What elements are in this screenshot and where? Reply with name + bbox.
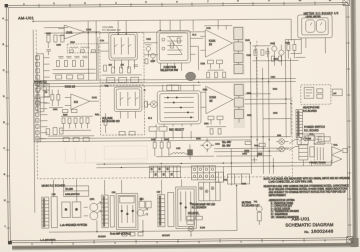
notes parts list bbox=[269, 199, 300, 219]
svg-text:T901: T901 bbox=[333, 145, 337, 147]
meter feed resistor network bbox=[287, 39, 296, 58]
connector CN102 phono strip bbox=[34, 99, 48, 142]
svg-text:IC102: IC102 bbox=[92, 97, 97, 99]
svg-text:L-ch (2SC2837): L-ch (2SC2837) bbox=[40, 240, 56, 242]
motor M101 bbox=[186, 72, 196, 80]
page bottom edge shadow bbox=[12, 243, 356, 251]
svg-text:E-233: E-233 bbox=[200, 227, 205, 229]
svg-text:C301: C301 bbox=[53, 109, 58, 111]
svg-text:S2-1: S2-1 bbox=[148, 118, 152, 120]
svg-text:TH1: TH1 bbox=[254, 201, 258, 203]
svg-text:D902: D902 bbox=[242, 153, 247, 155]
speaker A block : connector CN301 bbox=[42, 197, 49, 228]
vertical wires right x285-290 bbox=[285, 40, 291, 138]
volume pot VR101 assembly bbox=[109, 32, 138, 69]
svg-text:Q201: Q201 bbox=[273, 59, 278, 61]
svg-text:C121: C121 bbox=[146, 39, 151, 41]
selector motor M102 bbox=[144, 101, 157, 108]
svg-text:R-ch AMP MODULE: R-ch AMP MODULE bbox=[110, 232, 131, 235]
ground lug bbox=[188, 226, 194, 236]
svg-text:IC102 1/2: IC102 1/2 bbox=[65, 85, 76, 88]
headphone board dashed outline bbox=[301, 85, 331, 105]
top horizontal bus wire bbox=[44, 26, 205, 33]
top supply rail wire bbox=[33, 19, 292, 81]
svg-text:PHONO/AMP SW LED: PHONO/AMP SW LED bbox=[192, 203, 216, 206]
headphone jack J901 bbox=[304, 87, 323, 98]
meter M901 assembly bbox=[298, 15, 333, 54]
svg-text:L901: L901 bbox=[176, 148, 180, 150]
svg-text:D901: D901 bbox=[196, 138, 201, 140]
svg-text:No. 16002446: No. 16002446 bbox=[304, 228, 333, 234]
supply labels row bbox=[222, 141, 265, 147]
svg-text:P.C.BOARD 1/2: P.C.BOARD 1/2 bbox=[102, 28, 121, 32]
svg-text:S1-2: S1-2 bbox=[192, 34, 196, 36]
tone network coils L101 bbox=[67, 44, 98, 53]
svg-text:P.C. BOARDS: P.C. BOARDS bbox=[192, 206, 207, 209]
svg-text:FUSE: FUSE bbox=[305, 138, 311, 140]
svg-text:IC102: IC102 bbox=[209, 96, 216, 99]
lower horizontal bus wires y140 bbox=[37, 137, 291, 142]
svg-text:C204: C204 bbox=[271, 77, 276, 79]
bridge rectifier D901 bbox=[200, 138, 214, 152]
input selector switch S101 assembly bbox=[157, 30, 191, 71]
connector CN901 right strip bbox=[296, 109, 303, 137]
svg-text:AM-U01: AM-U01 bbox=[18, 15, 34, 20]
phono lower component row bbox=[46, 127, 94, 141]
IC102 column parts bbox=[234, 84, 243, 122]
bus wires y165 bbox=[96, 162, 331, 168]
IC101 column parts bbox=[234, 27, 243, 73]
svg-text:2SC2837: 2SC2837 bbox=[162, 235, 170, 237]
buffer transistors Q103 Q104 bbox=[145, 45, 155, 64]
frame corner mark bottom-right bbox=[347, 237, 353, 243]
balance board passives bbox=[104, 113, 135, 135]
speaker C block : connector CN303 bbox=[158, 195, 165, 227]
svg-text:Q : TRANSISTOR 2SC1815: Q : TRANSISTOR 2SC1815 bbox=[271, 210, 300, 213]
wire meter to amp bbox=[285, 39, 305, 57]
svg-text:C332: C332 bbox=[247, 115, 252, 117]
svg-text:CN5: CN5 bbox=[52, 194, 56, 196]
svg-text:C : CAPACITOR (uF): C : CAPACITOR (uF) bbox=[271, 205, 292, 208]
svg-text:J: J bbox=[4, 226, 5, 228]
svg-text:LEVEL METER: LEVEL METER bbox=[306, 16, 321, 18]
svg-text:R402: R402 bbox=[164, 139, 169, 141]
op-amp IC102a phono bbox=[65, 85, 99, 109]
svg-text:R131: R131 bbox=[201, 63, 206, 65]
phono input transistor pair Q101 Q102 bbox=[34, 82, 50, 97]
svg-text:RY1: RY1 bbox=[224, 180, 228, 182]
faint ghost lines bbox=[65, 147, 147, 163]
svg-text:P.C.BOARD: P.C.BOARD bbox=[303, 109, 317, 113]
IC101 feedback parts bbox=[204, 26, 232, 78]
svg-text:L-ch SPEAKER SYSTEM: L-ch SPEAKER SYSTEM bbox=[60, 224, 87, 227]
meter driver transistors Q201 Q202 bbox=[271, 42, 284, 66]
regulator diodes row bbox=[244, 150, 262, 163]
micro reference labels bbox=[44, 27, 338, 239]
svg-text:C131: C131 bbox=[206, 28, 211, 30]
svg-text:C342: C342 bbox=[273, 113, 278, 115]
speaker A block : label box TA-160 bbox=[64, 186, 89, 197]
IC102 shaded column bbox=[233, 83, 245, 128]
speaker A block : driver box bbox=[51, 197, 57, 228]
speaker A block : output squares Q301 Q302 bbox=[62, 202, 81, 218]
svg-text:Q1: Q1 bbox=[45, 92, 48, 94]
svg-text:DARLINGTON: DARLINGTON bbox=[65, 193, 80, 196]
bottom interconnect wires bbox=[48, 148, 237, 237]
frame tick marks left bbox=[5, 20, 10, 228]
svg-text:R401: R401 bbox=[151, 139, 156, 141]
power indicator lamps PL901 bbox=[276, 139, 288, 152]
svg-text:IC101: IC101 bbox=[66, 32, 73, 34]
speaker C block : heatsink module box bbox=[168, 187, 197, 229]
supply rail resistor row mid bbox=[153, 138, 170, 157]
power switch S901 bbox=[297, 134, 324, 145]
terminal strip TB2 bbox=[191, 166, 215, 180]
svg-text:SW1: SW1 bbox=[277, 135, 281, 137]
filter choke L901 bbox=[169, 152, 189, 154]
thermal breaker TH901 bbox=[256, 204, 262, 225]
wires volume to selector bbox=[98, 37, 158, 80]
svg-text:CN6: CN6 bbox=[112, 192, 116, 194]
op-amp IC101 bbox=[200, 29, 242, 57]
speaker B block : heatsink module box bbox=[116, 193, 138, 229]
svg-text:2.2u: 2.2u bbox=[100, 40, 104, 42]
svg-text:P.C.BOARD 1/2: P.C.BOARD 1/2 bbox=[242, 204, 260, 207]
svg-text:CN-244A: CN-244A bbox=[188, 211, 199, 215]
selector2 top part bbox=[167, 85, 179, 91]
faint ghost box bbox=[104, 146, 147, 159]
svg-text:CN7: CN7 bbox=[157, 192, 161, 194]
notes paragraph 2 bbox=[264, 185, 350, 198]
selector 2 bottom labels bbox=[149, 124, 191, 139]
svg-text:R331: R331 bbox=[247, 93, 252, 95]
svg-text:P.C. BOARD: P.C. BOARD bbox=[304, 128, 319, 132]
resistor R102 bbox=[54, 35, 57, 42]
IC102 feedback parts bbox=[206, 116, 226, 134]
svg-text:C105: C105 bbox=[56, 45, 61, 47]
frame corner mark top-right bbox=[343, 0, 350, 6]
relay module box E bbox=[227, 174, 249, 184]
svg-text:LOAD CONNECTED, AC 120V 60Hz L: LOAD CONNECTED, AC 120V 60Hz LINE. bbox=[269, 180, 314, 183]
op-amp IC1a tone amp bbox=[58, 25, 100, 39]
notes paragraph 1 bbox=[264, 177, 351, 184]
supply wires right bbox=[156, 148, 291, 157]
part number label bbox=[188, 211, 200, 215]
page right edge shadow bbox=[350, 0, 358, 243]
driver module box D bbox=[215, 172, 223, 182]
ac outlet box bbox=[332, 89, 342, 96]
svg-text:P.C.BOARD 2/2: P.C.BOARD 2/2 bbox=[102, 120, 120, 123]
resistor R103 bbox=[61, 35, 64, 42]
frame corner mark bottom-left bbox=[8, 241, 12, 244]
svg-text:IC101: IC101 bbox=[209, 40, 216, 43]
svg-text:B1+ 35V: B1+ 35V bbox=[222, 142, 231, 144]
svg-text:R311: R311 bbox=[95, 114, 99, 116]
frame tick marks right bbox=[346, 17, 351, 225]
svg-text:R605: R605 bbox=[242, 183, 247, 185]
IC101 shaded column bbox=[233, 26, 245, 75]
svg-text:REC SELECT: REC SELECT bbox=[169, 128, 185, 131]
mains switch contacts bbox=[289, 139, 299, 150]
main board dashed outline bbox=[36, 28, 292, 179]
fuse boxes F901 bbox=[304, 136, 330, 142]
balance board dashed outline bbox=[100, 85, 144, 135]
speaker B block : thin box bbox=[110, 196, 114, 228]
vertical wire x250 top-to-bottom bbox=[250, 43, 269, 174]
svg-text:C901: C901 bbox=[215, 144, 220, 146]
resistor R101 bbox=[47, 35, 50, 42]
svg-text:F902: F902 bbox=[309, 134, 313, 136]
op-amp IC102b bbox=[201, 86, 245, 114]
tone network caps C102-C106 bbox=[52, 56, 95, 79]
svg-text:IC101: IC101 bbox=[86, 29, 91, 31]
svg-text:2SA1186: 2SA1186 bbox=[98, 235, 106, 238]
svg-text:SELECTOR SW: SELECTOR SW bbox=[161, 69, 179, 72]
balance pot VR102 assembly bbox=[114, 87, 142, 119]
frame tick marks bottom bbox=[52, 238, 304, 244]
svg-text:POWER TRANS: POWER TRANS bbox=[309, 161, 326, 164]
svg-text:R341: R341 bbox=[273, 89, 278, 91]
corner join bottom-right bbox=[351, 238, 359, 247]
svg-text:Q105: Q105 bbox=[150, 61, 155, 63]
svg-text:R321: R321 bbox=[203, 89, 208, 91]
svg-text:R141: R141 bbox=[245, 40, 250, 42]
svg-text:B2- 35V: B2- 35V bbox=[222, 145, 231, 147]
svg-text:IC : NJM4558DD: IC : NJM4558DD bbox=[271, 214, 288, 216]
connector CN101 input strip bbox=[35, 54, 50, 112]
speaker terminal tick boxes bbox=[122, 232, 143, 236]
capacitor C101 bbox=[46, 42, 51, 55]
left vertical supply wire bbox=[33, 30, 35, 213]
output bus wires to right bbox=[245, 94, 291, 119]
power transformer T901 bbox=[314, 143, 347, 164]
svg-text:AC: AC bbox=[333, 92, 336, 95]
frame corner mark top-left bbox=[5, 4, 8, 7]
mid horizontal bus wires y84 bbox=[37, 78, 296, 86]
svg-text:C322: C322 bbox=[204, 123, 209, 125]
svg-text:PHONO EQ: PHONO EQ bbox=[34, 82, 47, 84]
svg-text:IC2: IC2 bbox=[74, 100, 79, 104]
psu bottom wire bbox=[271, 137, 331, 174]
svg-text:Q601: Q601 bbox=[90, 199, 95, 201]
wires selector right bbox=[190, 38, 203, 70]
svg-text:R103: R103 bbox=[46, 33, 51, 35]
phono feedback resistor row bbox=[61, 116, 93, 130]
frame tick marks top bbox=[39, 2, 315, 8]
speaker B terminals SP bbox=[137, 199, 151, 216]
svg-text:ABBREVIATION LISTING: ABBREVIATION LISTING bbox=[269, 199, 295, 202]
svg-text:R151: R151 bbox=[270, 43, 275, 45]
rec out selector S102 assembly bbox=[157, 84, 201, 124]
terminal strip TB1 bbox=[149, 166, 180, 178]
svg-text:AM-U01: AM-U01 bbox=[291, 216, 310, 221]
relay driver box bbox=[199, 182, 221, 201]
phono passives caps bbox=[49, 89, 77, 112]
svg-text:TA-160: TA-160 bbox=[65, 188, 73, 191]
svg-text:R203: R203 bbox=[285, 43, 290, 45]
title block text bbox=[285, 216, 334, 235]
right top parts R201 C201 group bbox=[252, 45, 298, 60]
svg-text:R305: R305 bbox=[63, 114, 68, 116]
svg-text:C142: C142 bbox=[246, 55, 251, 57]
svg-text:SCHEMATIC DIAGRAM: SCHEMATIC DIAGRAM bbox=[285, 222, 333, 227]
svg-text:IMPROVEMENT.: IMPROVEMENT. bbox=[269, 195, 287, 197]
muting board small boxes bbox=[187, 216, 203, 224]
bottom vertical feed wires bbox=[54, 178, 182, 201]
svg-text:F901: F901 bbox=[254, 145, 258, 147]
svg-text:R110: R110 bbox=[70, 42, 74, 44]
relay RY901 bbox=[299, 145, 315, 160]
volume board passives bbox=[102, 65, 142, 83]
svg-text:VR2: VR2 bbox=[105, 86, 109, 88]
speaker A terminals bbox=[84, 202, 102, 220]
volume board dashed outline bbox=[100, 32, 144, 82]
cap C901 blob bbox=[187, 144, 193, 159]
speaker B block : connector CN302 bbox=[102, 195, 109, 228]
svg-text:SP-L: SP-L bbox=[140, 198, 144, 200]
